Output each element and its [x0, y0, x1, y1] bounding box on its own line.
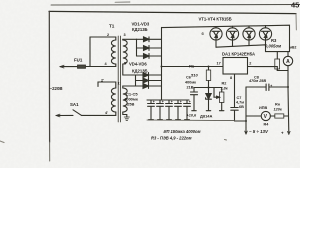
svg-text:Д814А: Д814А	[200, 114, 213, 119]
capacitor C7	[231, 108, 238, 122]
primary winding coil	[111, 40, 115, 64]
svg-text:400мк: 400мк	[185, 81, 196, 85]
svg-text:С6: С6	[186, 76, 191, 80]
svg-text:120к: 120к	[274, 108, 283, 112]
svg-text:510: 510	[191, 73, 198, 78]
svg-text:+: +	[171, 100, 173, 104]
wire mains upper with arrow	[60, 66, 90, 68]
svg-text:4': 4'	[105, 111, 108, 115]
resistor R3	[276, 52, 278, 59]
svg-text:2: 2	[249, 62, 251, 66]
ammeter A	[287, 52, 289, 57]
wire DA1 pin8 down	[234, 74, 236, 108]
secondary upper coil	[123, 40, 127, 64]
ground at secondary center	[123, 112, 127, 117]
diode VD6	[136, 85, 162, 87]
anode bus lower group	[135, 75, 137, 86]
capacitor C5	[184, 100, 191, 120]
svg-text:8: 8	[230, 76, 232, 80]
svg-text:21В: 21В	[187, 86, 194, 90]
main dc wire	[162, 66, 224, 68]
capacitor C3	[166, 100, 173, 120]
svg-text:ИП 150мка 4000ом: ИП 150мка 4000ом	[164, 129, 201, 134]
svg-text:КД213Б: КД213Б	[132, 27, 148, 32]
junction adj	[208, 87, 210, 89]
svg-text:С7: С7	[237, 96, 242, 100]
capacitor C1	[148, 100, 155, 120]
svg-text:+: +	[180, 100, 182, 104]
svg-text:А: А	[286, 59, 290, 65]
frame top	[49, 11, 296, 13]
anode bus upper group	[136, 39, 138, 56]
voltmeter V	[261, 111, 270, 120]
svg-text:FU1: FU1	[74, 58, 83, 63]
resistor R1	[208, 67, 210, 71]
diode VD2	[137, 47, 162, 49]
svg-text:VT1-VT4 КТ815Б: VT1-VT4 КТ815Б	[199, 17, 232, 22]
output terminal plus	[288, 131, 291, 134]
svg-text:6В: 6В	[239, 105, 244, 109]
svg-text:R1: R1	[189, 64, 195, 69]
diode VD5	[136, 80, 162, 82]
lower-left winding lead 2'	[98, 82, 116, 88]
smudge dot	[225, 139, 227, 142]
svg-text:~220В: ~220В	[50, 86, 63, 91]
transformer core	[118, 36, 120, 122]
emitter bus	[216, 45, 266, 52]
svg-text:R3 - ПЭВ 4,9 - 222ом: R3 - ПЭВ 4,9 - 222ом	[151, 136, 192, 141]
frame right / + rail	[295, 14, 297, 30]
junction rectifier	[161, 66, 163, 68]
svg-text:+: +	[153, 100, 155, 104]
svg-text:4,7м: 4,7м	[236, 101, 244, 105]
minus rail	[245, 87, 247, 128]
svg-text:SA1: SA1	[70, 102, 79, 107]
svg-text:3: 3	[124, 33, 126, 37]
resistor Rn	[270, 115, 274, 117]
diode VD1	[137, 38, 162, 40]
wire switch to transformer	[82, 114, 116, 116]
C8 wire	[246, 86, 288, 88]
svg-text:+: +	[270, 84, 272, 88]
svg-text:25В: 25В	[127, 102, 134, 107]
ground bus	[147, 119, 235, 122]
svg-text:Rн: Rн	[275, 103, 281, 107]
zener VD7	[208, 88, 210, 94]
lower-left winding coil	[111, 88, 115, 112]
capacitor C8	[266, 84, 269, 91]
svg-text:470м 25В: 470м 25В	[248, 79, 266, 83]
R2 wiper	[214, 88, 220, 98]
capacitor C4	[175, 100, 182, 120]
voltmeter branch wire	[246, 115, 261, 117]
svg-text:2: 2	[107, 33, 109, 37]
wire DA1 output	[248, 67, 278, 71]
lower coil top lead 1'	[123, 86, 136, 88]
transistor VT4	[259, 26, 271, 45]
transistor VT2	[226, 26, 238, 46]
diode VD3	[137, 55, 162, 57]
stray mark above rule	[115, 1, 130, 3]
capacitor C6	[191, 88, 198, 111]
smudge left edge	[0, 141, 4, 143]
svg-text:R3: R3	[271, 38, 277, 43]
capacitor C2	[157, 100, 164, 120]
svg-text:VD4-VD6: VD4-VD6	[129, 62, 147, 67]
svg-text:ИПВ: ИПВ	[259, 106, 267, 110]
R3 A bottom bus	[277, 70, 288, 72]
svg-text:КД213Б: КД213Б	[132, 69, 148, 74]
svg-text:17: 17	[217, 62, 221, 66]
svg-text:− 5 ÷ 13V: − 5 ÷ 13V	[249, 129, 269, 134]
junction R1 top	[208, 66, 210, 68]
svg-text:0,005ом: 0,005ом	[265, 44, 282, 49]
svg-text:1': 1'	[118, 82, 121, 86]
primary winding upper left loop	[90, 37, 116, 67]
pin 3 lead to diodes	[123, 38, 137, 41]
potentiometer R2	[221, 88, 223, 93]
svg-text:+: +	[189, 100, 191, 104]
secondary lower coil	[123, 88, 127, 112]
adj node wire	[194, 87, 222, 89]
svg-text:45: 45	[291, 1, 299, 10]
diode VD4	[136, 74, 162, 76]
pin 5 lead down	[123, 64, 136, 75]
page top rule	[51, 4, 300, 6]
fuse FU1	[78, 65, 86, 68]
wire mains lower with arrow	[56, 114, 73, 116]
R3 A parallel top bus	[266, 51, 290, 53]
junction C8 node	[287, 86, 289, 88]
junction minus	[245, 120, 247, 122]
svg-text:5: 5	[124, 62, 126, 66]
frame left	[48, 11, 50, 142]
transistor VT1	[210, 27, 222, 48]
svg-text:+: +	[162, 100, 164, 104]
capacitor bank top bus	[147, 99, 189, 101]
svg-text:+10,6: +10,6	[187, 114, 197, 118]
output terminal minus	[245, 128, 247, 134]
svg-text:2': 2'	[101, 79, 104, 83]
transistor VT3	[243, 26, 255, 46]
IC DA1	[223, 58, 248, 75]
ground bus right	[235, 120, 247, 122]
svg-text:DA1 КР142ЕН5А: DA1 КР142ЕН5А	[222, 52, 255, 57]
lower-left winding lead 4'	[115, 112, 117, 115]
collector bus	[162, 25, 290, 51]
svg-text:+: +	[281, 131, 284, 136]
svg-text:мВ2: мВ2	[290, 46, 297, 50]
wire to C8 node	[287, 71, 290, 133]
svg-text:R2: R2	[222, 82, 227, 86]
cathode bus	[161, 27, 163, 100]
switch SA1	[73, 110, 82, 116]
svg-text:VD1-VD3: VD1-VD3	[132, 22, 150, 27]
svg-text:Т1: Т1	[109, 24, 115, 29]
